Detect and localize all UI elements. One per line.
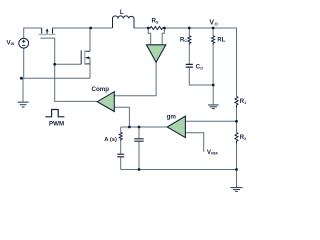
svg-text:gm: gm	[167, 114, 177, 121]
svg-text:L: L	[120, 9, 124, 16]
svg-text:IN: IN	[11, 42, 15, 46]
svg-text:S: S	[156, 21, 159, 25]
svg-text:PWM: PWM	[49, 121, 64, 128]
svg-text:A (s): A (s)	[104, 137, 117, 143]
svg-text:C: C	[184, 39, 187, 43]
svg-text:2: 2	[244, 137, 246, 141]
svg-text:1: 1	[244, 101, 246, 105]
svg-text:Comp: Comp	[92, 86, 110, 93]
svg-text:REF: REF	[211, 152, 218, 156]
svg-text:O: O	[200, 67, 203, 71]
svg-text:RL: RL	[217, 37, 225, 43]
